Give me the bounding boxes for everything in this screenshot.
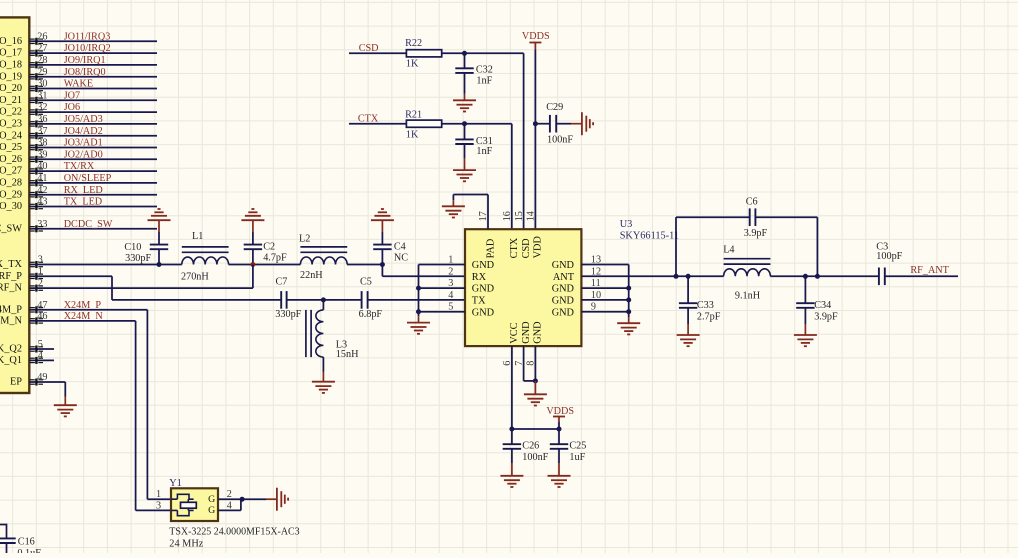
svg-text:49: 49 — [37, 372, 47, 383]
svg-text:JO6: JO6 — [64, 102, 80, 113]
svg-text:6.8pF: 6.8pF — [359, 309, 383, 320]
svg-text:GND: GND — [552, 260, 575, 271]
svg-text:CTX: CTX — [509, 237, 520, 258]
svg-text:CLK_Q1: CLK_Q1 — [0, 355, 22, 366]
svg-text:24 MHz: 24 MHz — [169, 539, 203, 550]
svg-text:L4: L4 — [723, 245, 734, 256]
svg-text:SKY66115-11: SKY66115-11 — [620, 231, 679, 242]
svg-text:Y1: Y1 — [169, 478, 182, 489]
svg-text:26: 26 — [37, 31, 47, 42]
svg-text:JO5/AD3: JO5/AD3 — [64, 114, 103, 125]
svg-text:L1: L1 — [192, 231, 203, 242]
svg-text:37: 37 — [37, 126, 47, 137]
svg-text:2.7pF: 2.7pF — [697, 312, 721, 323]
svg-text:G: G — [208, 494, 215, 505]
svg-text:1: 1 — [156, 489, 161, 500]
svg-text:WAKE: WAKE — [64, 79, 93, 90]
svg-text:RF_N: RF_N — [0, 283, 23, 294]
svg-text:9.1nH: 9.1nH — [735, 290, 761, 301]
svg-text:3.9pF: 3.9pF — [744, 228, 768, 239]
svg-text:1K: 1K — [406, 58, 419, 69]
svg-text:GND: GND — [472, 284, 495, 295]
svg-text:C25: C25 — [569, 440, 586, 451]
svg-text:40: 40 — [37, 161, 47, 172]
svg-text:PAD: PAD — [485, 238, 496, 258]
svg-text:VDD: VDD — [533, 236, 544, 259]
svg-text:4: 4 — [448, 290, 453, 301]
svg-text:IO_22: IO_22 — [0, 107, 22, 118]
svg-text:IO_17: IO_17 — [0, 48, 22, 59]
svg-text:330pF: 330pF — [125, 253, 151, 264]
svg-text:100pF: 100pF — [876, 251, 902, 262]
svg-text:C32: C32 — [476, 64, 493, 75]
svg-text:C2: C2 — [263, 241, 275, 252]
svg-text:GND: GND — [552, 284, 575, 295]
svg-text:IO_25: IO_25 — [0, 142, 22, 153]
svg-text:1K: 1K — [406, 129, 419, 140]
svg-text:RX_LED: RX_LED — [64, 185, 103, 196]
svg-text:IO_29: IO_29 — [0, 189, 22, 200]
svg-text:TX: TX — [472, 296, 486, 307]
svg-text:JO7: JO7 — [64, 90, 80, 101]
svg-text:15nH: 15nH — [336, 349, 359, 360]
svg-text:JO8/IRQ0: JO8/IRQ0 — [64, 67, 106, 78]
svg-text:C7: C7 — [276, 276, 288, 287]
svg-text:GND: GND — [533, 321, 544, 344]
svg-text:36: 36 — [37, 114, 47, 125]
svg-text:JO9/IRQ1: JO9/IRQ1 — [64, 55, 106, 66]
svg-text:28: 28 — [37, 55, 47, 66]
svg-text:VDDS: VDDS — [522, 31, 550, 42]
svg-text:RF_P: RF_P — [0, 271, 22, 282]
svg-text:IO_16: IO_16 — [0, 36, 22, 47]
svg-text:1nF: 1nF — [476, 76, 492, 87]
svg-text:RF_ANT: RF_ANT — [910, 265, 949, 276]
svg-text:2: 2 — [448, 266, 453, 277]
svg-text:0.1uF: 0.1uF — [17, 548, 41, 553]
svg-text:27: 27 — [37, 43, 47, 54]
svg-text:JO2/AD0: JO2/AD0 — [64, 149, 103, 160]
svg-text:R21: R21 — [405, 110, 422, 121]
svg-text:DCDC_SW: DCDC_SW — [64, 219, 113, 230]
svg-text:GND: GND — [472, 260, 495, 271]
svg-text:IO_27: IO_27 — [0, 166, 22, 177]
svg-text:CSD: CSD — [521, 238, 532, 259]
svg-text:JO3/AD1: JO3/AD1 — [64, 138, 103, 149]
svg-text:RX: RX — [472, 272, 487, 283]
svg-text:330pF: 330pF — [275, 309, 301, 320]
svg-text:1nF: 1nF — [476, 146, 492, 157]
svg-text:CLK_Q2: CLK_Q2 — [0, 344, 22, 355]
svg-text:NC: NC — [394, 252, 408, 263]
svg-text:VDDS: VDDS — [546, 406, 574, 417]
svg-text:4: 4 — [38, 351, 43, 362]
svg-text:22nH: 22nH — [300, 270, 323, 281]
svg-text:C34: C34 — [814, 300, 831, 311]
svg-text:C16: C16 — [18, 537, 35, 548]
svg-text:42: 42 — [37, 185, 47, 196]
svg-text:IO_21: IO_21 — [0, 95, 22, 106]
svg-text:16: 16 — [502, 211, 513, 221]
svg-text:270nH: 270nH — [181, 272, 209, 283]
svg-text:JO11/IRQ3: JO11/IRQ3 — [64, 31, 111, 42]
svg-text:R22: R22 — [405, 38, 422, 49]
svg-text:C33: C33 — [697, 300, 714, 311]
svg-text:38: 38 — [37, 138, 47, 149]
svg-text:C4: C4 — [394, 241, 406, 252]
svg-text:U3: U3 — [620, 219, 633, 230]
svg-text:IO_18: IO_18 — [0, 60, 22, 71]
svg-text:IO_26: IO_26 — [0, 154, 22, 165]
svg-text:C10: C10 — [124, 242, 141, 253]
svg-text:C26: C26 — [522, 440, 539, 451]
svg-text:TSX-3225 24.0000MF15X-AC3: TSX-3225 24.0000MF15X-AC3 — [169, 527, 299, 538]
svg-text:IO_28: IO_28 — [0, 178, 22, 189]
svg-text:43: 43 — [37, 197, 47, 208]
svg-text:14: 14 — [526, 211, 537, 221]
svg-text:ANT: ANT — [553, 272, 575, 283]
svg-text:C29: C29 — [546, 102, 563, 113]
svg-text:GND: GND — [552, 296, 575, 307]
svg-text:100nF: 100nF — [522, 452, 548, 463]
svg-text:RX_TX: RX_TX — [0, 259, 23, 270]
svg-text:X24M_P: X24M_P — [0, 304, 22, 315]
svg-text:41: 41 — [37, 173, 47, 184]
svg-text:39: 39 — [37, 149, 47, 160]
svg-text:X24M_N: X24M_N — [0, 316, 23, 327]
svg-text:IO_23: IO_23 — [0, 119, 22, 130]
svg-text:32: 32 — [37, 102, 47, 113]
svg-text:IO_30: IO_30 — [0, 201, 22, 212]
svg-text:3: 3 — [156, 500, 161, 511]
svg-text:15: 15 — [514, 211, 525, 221]
svg-text:100nF: 100nF — [547, 134, 573, 145]
svg-text:5: 5 — [38, 339, 43, 350]
svg-text:3.9pF: 3.9pF — [814, 312, 838, 323]
svg-text:IO_19: IO_19 — [0, 71, 22, 82]
svg-text:TX_LED: TX_LED — [64, 197, 102, 208]
svg-text:EP: EP — [10, 377, 22, 388]
svg-text:29: 29 — [37, 67, 47, 78]
svg-text:DCDC_SW: DCDC_SW — [0, 223, 22, 234]
svg-text:31: 31 — [37, 90, 47, 101]
svg-text:30: 30 — [37, 79, 47, 90]
svg-text:C5: C5 — [360, 276, 372, 287]
svg-text:CTX: CTX — [358, 113, 379, 124]
svg-text:33: 33 — [37, 219, 47, 230]
svg-text:JO4/AD2: JO4/AD2 — [64, 126, 103, 137]
svg-text:JO10/IRQ2: JO10/IRQ2 — [64, 43, 111, 54]
svg-text:4.7pF: 4.7pF — [263, 252, 287, 263]
svg-text:GND: GND — [521, 321, 532, 344]
svg-text:1uF: 1uF — [569, 452, 585, 463]
svg-text:L2: L2 — [299, 233, 310, 244]
svg-text:IO_20: IO_20 — [0, 83, 22, 94]
svg-text:TX/RX: TX/RX — [64, 161, 95, 172]
svg-text:C6: C6 — [746, 197, 758, 208]
svg-text:VCC: VCC — [509, 322, 520, 343]
svg-text:GND: GND — [472, 307, 495, 318]
svg-text:GND: GND — [552, 307, 575, 318]
svg-text:IO_24: IO_24 — [0, 130, 22, 141]
svg-text:ON/SLEEP: ON/SLEEP — [64, 173, 112, 184]
svg-text:G: G — [208, 505, 215, 516]
